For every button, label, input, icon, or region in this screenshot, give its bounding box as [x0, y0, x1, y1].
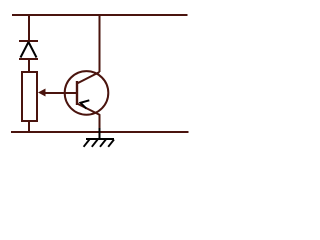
wiper arrow line to base	[44, 92, 77, 94]
wire bottom rail	[11, 131, 189, 133]
wire emitter down	[99, 115, 101, 129]
ground hatch 4	[84, 140, 90, 147]
transistor Q1 base bar	[76, 81, 78, 105]
wire diode to resistor	[28, 59, 30, 72]
diode D1 cathode bar	[19, 40, 38, 42]
transistor Q1 collector diagonal	[77, 72, 100, 84]
ground hatch 1	[108, 140, 114, 147]
transistor Q1 emitter diagonal	[77, 104, 100, 116]
transistor Q1 circle	[65, 71, 109, 115]
transistor Q1 emitter arrow (PNP)	[81, 100, 90, 108]
wiper arrowhead	[38, 89, 46, 97]
ground hatch 3	[92, 140, 98, 147]
ground hatch 2	[100, 140, 106, 147]
wire resistor to bottom rail	[28, 121, 30, 133]
ground stub	[99, 128, 101, 139]
wire collector to top rail	[99, 15, 101, 72]
diode D1 anode bar	[19, 58, 38, 60]
ground bar	[86, 138, 114, 140]
diode D1 triangle	[21, 42, 37, 58]
wire diode branch from top rail	[28, 15, 30, 41]
resistor R1 body	[22, 72, 37, 121]
wire top rail	[12, 14, 188, 16]
